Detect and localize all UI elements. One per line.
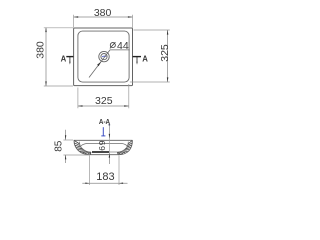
leader underline: [110, 49, 130, 51]
svg-text:69: 69: [97, 140, 107, 151]
svg-text:44: 44: [117, 40, 129, 52]
dimension 325 right: arrows: [167, 30, 169, 35]
svg-text:A: A: [61, 54, 67, 63]
dimension 69: dim line: [108, 124, 110, 138]
dimension 325 right: dim line: [167, 30, 169, 82]
section inner floor line: [110, 151, 117, 153]
svg-text:A-A: A-A: [99, 119, 110, 126]
diameter symbol: [110, 42, 116, 48]
plan view outer square: [74, 28, 133, 86]
svg-text:380: 380: [94, 7, 112, 19]
svg-text:325: 325: [95, 95, 113, 107]
dimension 69: top node dot: [109, 124, 111, 126]
leader arrowhead: [97, 62, 101, 66]
section rim top line: [74, 139, 132, 141]
svg-text:183: 183: [96, 171, 114, 183]
dimension 183: extension lines: [88, 155, 90, 185]
dimension 183: arrows: [85, 183, 89, 184]
dimension 380 left: extension lines: [44, 27, 73, 29]
plan view inner rim rounded square: [78, 31, 129, 82]
section outer profile: [74, 140, 132, 154]
dimension 85: dim line: [65, 130, 67, 140]
dimension 325 bottom: dim line: [78, 105, 129, 107]
dimension 325 right: extension lines: [134, 29, 170, 31]
dimension 380 left: arrows: [45, 28, 47, 33]
dimension 380 left: dim line: [45, 28, 47, 87]
faucet hole inner circle: [101, 54, 107, 60]
dimension 380 top: extension lines: [73, 15, 75, 28]
dimension 69: arrows: [109, 134, 110, 138]
faucet hole outer circle: [99, 51, 109, 61]
dimension 85: extension lines: [63, 139, 73, 141]
svg-text:A: A: [142, 54, 148, 63]
dimension 325 bottom: extension lines: [77, 88, 79, 109]
leader line for hole diameter: [89, 50, 110, 78]
dimension 380 top: dim line: [74, 16, 133, 18]
svg-text:380: 380: [35, 41, 47, 59]
blue arc marker in faucet hole: [102, 55, 106, 58]
dimension 380 top: arrows: [74, 16, 79, 18]
dimension 183: dim line: [82, 182, 127, 184]
section wall inner boundary right: [117, 142, 128, 153]
drain opening bar: [92, 151, 109, 153]
dimension 85: arrows: [65, 135, 66, 140]
section mark A right: [133, 54, 149, 64]
section wall inner boundary left: [79, 142, 91, 153]
section wall hatch strokes: [74, 140, 132, 154]
dimension 325 bottom: arrows: [78, 105, 83, 107]
section mark A left: [61, 54, 74, 64]
blue section trace line: [101, 127, 105, 136]
section bowl interior surface: [81, 143, 127, 145]
svg-text:85: 85: [53, 140, 64, 152]
svg-text:325: 325: [159, 44, 171, 62]
